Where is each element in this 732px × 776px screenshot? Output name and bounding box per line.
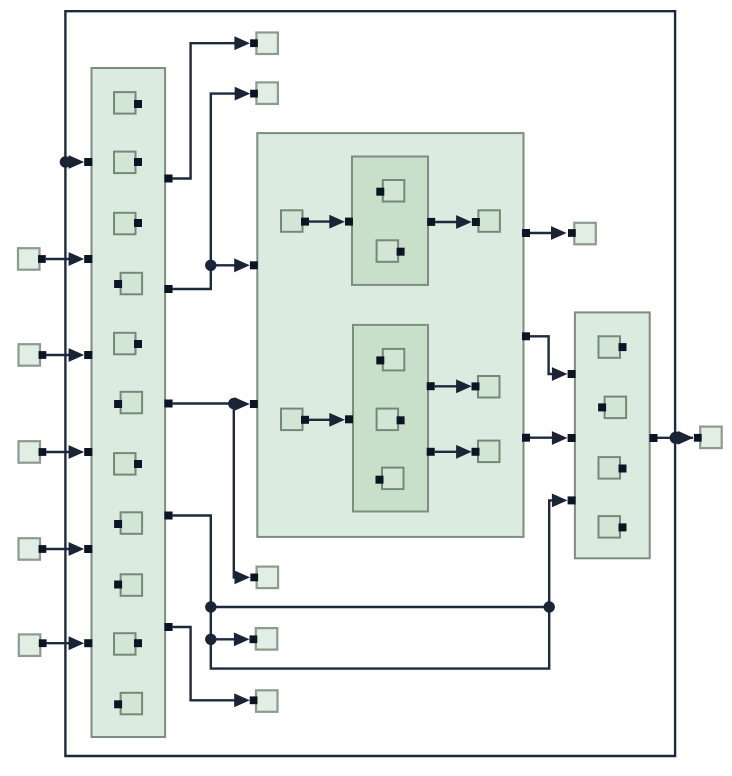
port B1 outputs (right edge) bbox=[164, 175, 172, 183]
wire input B to B1 bbox=[46, 354, 71, 356]
node SC (input C) bbox=[19, 441, 41, 463]
wire branch to B2-in1 bbox=[211, 264, 236, 266]
node IB2-b bbox=[377, 409, 399, 431]
wire IB1 output to B2-out1-node bbox=[435, 221, 457, 223]
node B1-n5 bbox=[114, 333, 136, 355]
node IB1-a bbox=[383, 180, 405, 202]
node IB1-b bbox=[377, 240, 399, 261]
port B2 inputs (left edge) bbox=[250, 261, 258, 269]
port IB2 outputs bbox=[427, 382, 435, 390]
wire B1-out4 upper channel bbox=[211, 606, 549, 608]
node B1-n11 bbox=[121, 693, 143, 715]
node B2-out1 bbox=[478, 210, 500, 232]
wire branch down to S3 bbox=[234, 404, 236, 578]
wire B1-out4 trunk bbox=[173, 500, 554, 668]
wire B1-out5 to S5 bbox=[173, 627, 236, 700]
node S5 (sink 5) bbox=[256, 690, 278, 712]
junction channel left upper bbox=[205, 601, 216, 612]
node SB (input B) bbox=[19, 344, 41, 366]
port IB1 output bbox=[427, 218, 435, 226]
node S3 (sink 3) bbox=[257, 567, 279, 589]
node B3-n4 bbox=[599, 516, 621, 538]
node B2-out2 bbox=[478, 376, 500, 398]
node SM (mid sink) bbox=[574, 223, 596, 245]
node B1-n2 bbox=[114, 152, 136, 174]
block B2 (middle group block) bbox=[257, 133, 523, 537]
node B2-in2 bbox=[281, 409, 303, 431]
port IB1 input bbox=[345, 218, 353, 226]
wire IB2 output2 to B2-out3-node bbox=[435, 451, 458, 453]
node IB2-a bbox=[383, 349, 405, 371]
node S4 (sink 4) bbox=[256, 628, 277, 650]
block B3 (right column block) bbox=[575, 312, 650, 558]
junction channel right bbox=[544, 601, 555, 612]
wire IB2 output1 to B2-out2-node bbox=[435, 385, 458, 387]
node S2 (top sink 2) bbox=[256, 82, 278, 104]
junction output on right border bbox=[670, 432, 682, 444]
block B1 (left column block) bbox=[92, 68, 166, 737]
wire feedback arrow into B1 bbox=[65, 161, 70, 163]
node SF (final output) bbox=[700, 427, 722, 449]
node IB2-c bbox=[382, 468, 404, 490]
port B2 outputs (right edge) bbox=[522, 229, 530, 237]
node B1-n3 bbox=[114, 213, 136, 235]
wire branch arrow to B2-in2 bbox=[234, 403, 236, 405]
node B1-n6 bbox=[121, 392, 143, 414]
junction feedback on left border bbox=[60, 156, 71, 167]
node S1 (top sink 1) bbox=[256, 33, 278, 55]
port IB2 input bbox=[345, 415, 353, 423]
node B1-n7 bbox=[114, 453, 136, 475]
wire input C to B1 bbox=[46, 451, 71, 453]
node B1-n1 bbox=[114, 92, 136, 114]
node B3-n2 bbox=[605, 397, 627, 419]
node SD (input D) bbox=[19, 538, 41, 560]
wire B1-out2 to S2 and B2-in1 bbox=[173, 94, 236, 289]
wire branch to S4 bbox=[211, 638, 235, 640]
node B3-n3 bbox=[599, 457, 621, 479]
node B1-n10 bbox=[114, 633, 136, 655]
node B2-out3 bbox=[478, 441, 500, 463]
node SE (input E) bbox=[19, 634, 41, 656]
node B1-n9 bbox=[121, 574, 143, 596]
nested block IB2 bbox=[353, 325, 428, 512]
wire B2-out1 to SM bbox=[530, 232, 552, 234]
node B2-in1 bbox=[281, 210, 303, 232]
wire B2-out2 to B3-in1 bbox=[530, 336, 554, 374]
node B1-n8 bbox=[121, 512, 143, 534]
node B1-n4 bbox=[121, 273, 143, 295]
wire input D to B1 bbox=[46, 548, 71, 550]
wire input A to B1 bbox=[46, 258, 71, 260]
nested block IB1 bbox=[352, 157, 428, 285]
junction B1-out3 branch bbox=[228, 398, 239, 409]
wire B2-in2-node to IB2 bbox=[308, 419, 331, 421]
junction channel left lower bbox=[205, 634, 216, 645]
wire B1-out3 to B2-in2 and S3 bbox=[173, 402, 234, 404]
wire B2-out3 to B3-in2 bbox=[530, 437, 554, 439]
port B3 output (right edge) bbox=[650, 434, 658, 442]
port B1 inputs (left edge) bbox=[84, 158, 92, 166]
node B3-n1 bbox=[599, 336, 621, 358]
node SA (input A) bbox=[18, 248, 40, 270]
port B3 inputs (left edge) bbox=[568, 370, 576, 378]
wire input E to B1 bbox=[46, 642, 71, 644]
wire B3 output to SF bbox=[658, 437, 694, 439]
wire B1-out1 to S1 bbox=[173, 43, 236, 178]
junction B1-out2 branch bbox=[205, 260, 216, 271]
wire B2-in1-node to IB1 bbox=[308, 220, 331, 222]
